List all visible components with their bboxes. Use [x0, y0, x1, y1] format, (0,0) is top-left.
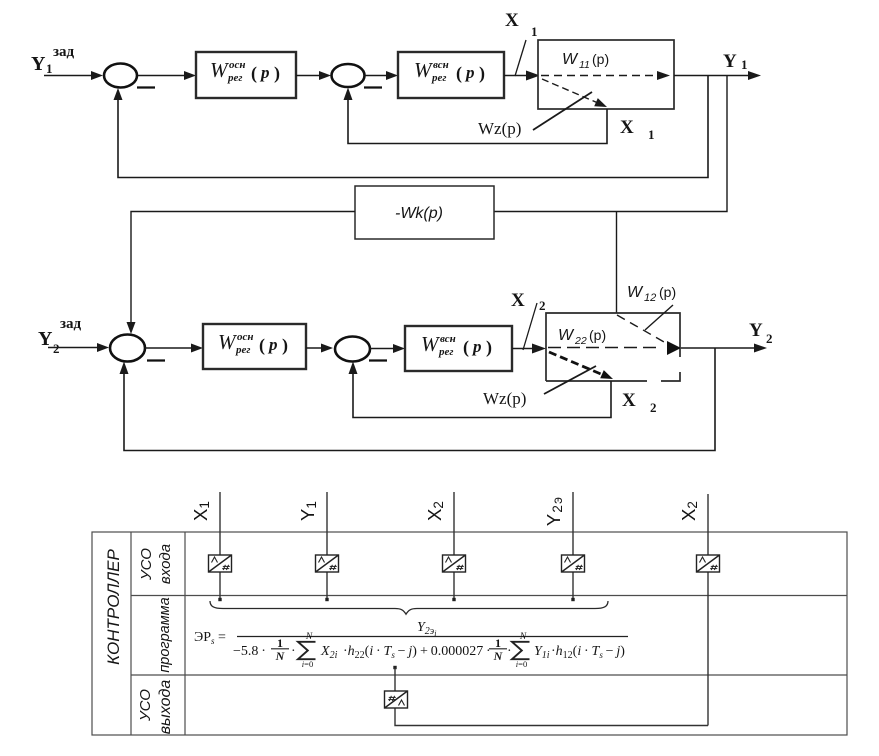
- wire S3 to block B3: [145, 347, 193, 349]
- svg-text:(p): (p): [592, 51, 609, 67]
- block W_reg_vsn(p) loop1: [398, 52, 504, 98]
- svg-text:p: p: [267, 335, 278, 354]
- block W_reg_osn(p) loop1: [196, 52, 296, 98]
- svg-text:·h22(i · Ts − j): ·h22(i · Ts − j): [343, 644, 417, 661]
- svg-text:Y2эi: Y2эi: [417, 620, 436, 638]
- block W_reg_osn(p) loop2: [203, 324, 306, 369]
- svg-text:X2: X2: [424, 501, 446, 521]
- node X1 tick on wire: [515, 40, 526, 76]
- DAC box: [385, 691, 408, 708]
- svg-text:2: 2: [766, 331, 773, 346]
- wire inner feedback loop1 from X1 tap to S2: [348, 98, 607, 144]
- formula main fraction bar: [237, 636, 628, 638]
- svg-text:Wz(p): Wz(p): [478, 119, 521, 138]
- DAC output wire: [393, 666, 396, 669]
- svg-text:X: X: [505, 10, 519, 31]
- wire Y2zad to summer S3: [48, 347, 99, 349]
- svg-text:i=0: i=0: [516, 659, 527, 669]
- svg-text:Y2э: Y2э: [543, 496, 565, 526]
- table label USO vyhoda: [137, 680, 174, 735]
- wire Y1 to cross-coupling block -Wk: [494, 76, 727, 212]
- svg-text:осн: осн: [237, 331, 254, 343]
- svg-text:·: ·: [291, 644, 296, 659]
- controller table frame: [92, 532, 847, 735]
- channel X1 input wire: [219, 492, 221, 599]
- svg-text:Y: Y: [749, 320, 763, 341]
- svg-text:(: (: [456, 63, 462, 84]
- plant block W22(p) with broken edges: [546, 313, 680, 381]
- channel Y1 input wire: [326, 492, 328, 599]
- ADC box channel Y2e input: [562, 555, 585, 572]
- summing junction S4: [335, 337, 370, 362]
- wire B3 to summer S4: [306, 347, 323, 349]
- wire S2 to block B2: [365, 75, 389, 77]
- svg-text:N: N: [519, 632, 527, 642]
- dashed disturbance path Wz to X2 (thick): [549, 352, 602, 375]
- svg-text:W: W: [627, 284, 644, 301]
- formula summation sign 2: [512, 642, 530, 659]
- svg-text:W: W: [558, 327, 575, 344]
- svg-text:·h12(i · Ts − j): ·h12(i · Ts − j): [551, 644, 625, 661]
- svg-text:1: 1: [531, 24, 538, 39]
- svg-text:W: W: [218, 330, 238, 354]
- svg-text:(p): (p): [589, 327, 606, 343]
- channel X2 output wire: [707, 494, 709, 726]
- ADC box channel X2 input: [443, 555, 466, 572]
- ADC box channel Y1 input: [316, 555, 339, 572]
- node Y1 output label: [723, 51, 748, 72]
- wire S1 to regulator block B1: [138, 75, 186, 77]
- ADC box channel X2 output: [697, 555, 720, 572]
- svg-text:X2i: X2i: [320, 644, 338, 661]
- brace over sampled signals: [210, 601, 608, 614]
- svg-text:всн: всн: [440, 333, 456, 345]
- svg-text:выхода: выхода: [157, 680, 174, 735]
- svg-text:рег: рег: [227, 72, 242, 84]
- channel X2 input wire: [453, 492, 455, 599]
- svg-text:Y: Y: [723, 51, 737, 72]
- svg-text:X: X: [620, 117, 634, 138]
- pointer line Wz(p) top: [533, 92, 592, 130]
- wire -Wk output down to summer S3: [131, 212, 355, 326]
- svg-text:p: p: [464, 63, 475, 82]
- formula summation sign 1: [298, 642, 316, 659]
- minus sign at S3: [147, 359, 165, 361]
- plant block W11(p): [538, 40, 674, 109]
- svg-text:Y1i: Y1i: [534, 644, 550, 661]
- node X2 label top: [511, 290, 546, 313]
- block W_reg_vsn(p) loop2: [405, 326, 512, 371]
- svg-text:всн: всн: [433, 59, 449, 71]
- block -Wk(p): [355, 186, 494, 239]
- svg-text:рег: рег: [235, 344, 250, 356]
- svg-text:1: 1: [648, 127, 655, 142]
- wire Y2 output: [681, 347, 756, 349]
- wire outer feedback loop1 from Y1 to S1: [118, 76, 708, 178]
- svg-text:зад: зад: [60, 316, 82, 332]
- node X2 tick on wire: [523, 303, 537, 350]
- svg-text:программа: программа: [157, 597, 173, 672]
- pointer line Wz(p) bottom: [544, 366, 596, 394]
- channel Y2e input wire: [572, 492, 574, 599]
- dashed transfer path inside W22: [548, 347, 660, 349]
- svg-text:Y1: Y1: [297, 501, 319, 521]
- svg-text:X2: X2: [678, 501, 700, 521]
- svg-text:W: W: [421, 332, 441, 356]
- filled arrowhead at W22 output node: [667, 341, 681, 355]
- svg-text:N: N: [493, 649, 504, 663]
- svg-text:): ): [479, 63, 485, 84]
- svg-text:+ 0.000027 ·: + 0.000027 ·: [420, 644, 491, 659]
- svg-text:(: (: [259, 335, 265, 356]
- svg-text:X: X: [511, 290, 525, 311]
- svg-text:): ): [274, 63, 280, 84]
- svg-text:i=0: i=0: [302, 659, 313, 669]
- svg-text:рег: рег: [438, 346, 453, 358]
- dashed disturbance path to X1 inside W11: [542, 79, 598, 103]
- node X2 label below W22: [622, 390, 657, 415]
- svg-text:2: 2: [539, 298, 546, 313]
- minus sign at S4: [369, 359, 387, 361]
- svg-text:осн: осн: [229, 59, 246, 71]
- node X1 label below W11: [620, 117, 655, 142]
- svg-text:X1: X1: [190, 501, 212, 521]
- svg-text:Y: Y: [31, 53, 46, 75]
- svg-text:22: 22: [574, 335, 587, 347]
- wire B2 to plant W11: [504, 75, 528, 77]
- table label USO vhoda: [138, 544, 174, 584]
- node Y2zad input label: [38, 316, 82, 356]
- svg-text:2: 2: [53, 341, 60, 356]
- pointer line W12(p): [645, 305, 673, 330]
- svg-text:-Wk(p): -Wk(p): [395, 205, 443, 222]
- svg-text:12: 12: [644, 292, 656, 304]
- svg-text:W: W: [414, 58, 434, 82]
- svg-text:1: 1: [741, 57, 748, 72]
- svg-text:W: W: [210, 58, 230, 82]
- wire outer feedback loop2 from Y2 to S3: [124, 348, 715, 451]
- svg-text:−5.8 ·: −5.8 ·: [233, 644, 266, 659]
- svg-text:11: 11: [579, 59, 590, 71]
- svg-text:(p): (p): [659, 284, 676, 300]
- summing junction S2: [332, 64, 365, 87]
- node Y2 output label: [749, 320, 773, 346]
- svg-text:ЭРs =: ЭРs =: [194, 630, 226, 646]
- wire W12 branch down to W22: [616, 212, 618, 314]
- summing junction S1: [104, 64, 137, 88]
- svg-text:зад: зад: [53, 44, 75, 60]
- svg-text:рег: рег: [431, 72, 446, 84]
- minus sign at S1: [137, 86, 155, 88]
- wire Y1zad to summer S1: [44, 75, 93, 77]
- ADC box channel X1 input: [209, 555, 232, 572]
- svg-text:·: ·: [507, 644, 512, 659]
- node Y1zad input label: [31, 44, 75, 76]
- wire B4 to plant W22: [512, 348, 534, 350]
- wire B1 to summer S2: [296, 75, 321, 77]
- label W12(p): [627, 284, 676, 304]
- svg-text:p: p: [471, 337, 482, 356]
- wire inner feedback loop2 from X2 tap to S4: [353, 372, 611, 418]
- svg-text:N: N: [305, 632, 313, 642]
- svg-text:p: p: [259, 63, 270, 82]
- svg-text:1: 1: [495, 636, 501, 650]
- minus sign at S2: [364, 86, 382, 88]
- wire Y1 output: [674, 75, 750, 77]
- formula small fraction 1/N first: [271, 648, 289, 650]
- svg-text:(: (: [463, 337, 469, 358]
- dashed transfer path inside W11: [541, 75, 656, 77]
- svg-text:X: X: [622, 390, 636, 411]
- svg-text:(: (: [251, 63, 257, 84]
- svg-text:УСО: УСО: [137, 689, 154, 722]
- svg-text:W: W: [562, 51, 579, 68]
- svg-text:): ): [282, 335, 288, 356]
- svg-text:УСО: УСО: [138, 548, 155, 581]
- formula small fraction 1/N second: [489, 648, 507, 650]
- svg-text:Wz(p): Wz(p): [483, 389, 526, 408]
- svg-text:КОНТРОЛЛЕР: КОНТРОЛЛЕР: [104, 548, 123, 664]
- node X1 label top: [505, 10, 538, 39]
- svg-text:2: 2: [650, 400, 657, 415]
- svg-text:1: 1: [46, 61, 53, 76]
- summing junction S3: [110, 335, 145, 362]
- dashed cross-coupling path W12 into W22: [617, 315, 664, 342]
- svg-text:1: 1: [277, 636, 283, 650]
- wire S4 to block B4: [370, 348, 395, 350]
- svg-text:входа: входа: [157, 544, 174, 584]
- svg-text:): ): [486, 337, 492, 358]
- svg-text:N: N: [275, 649, 286, 663]
